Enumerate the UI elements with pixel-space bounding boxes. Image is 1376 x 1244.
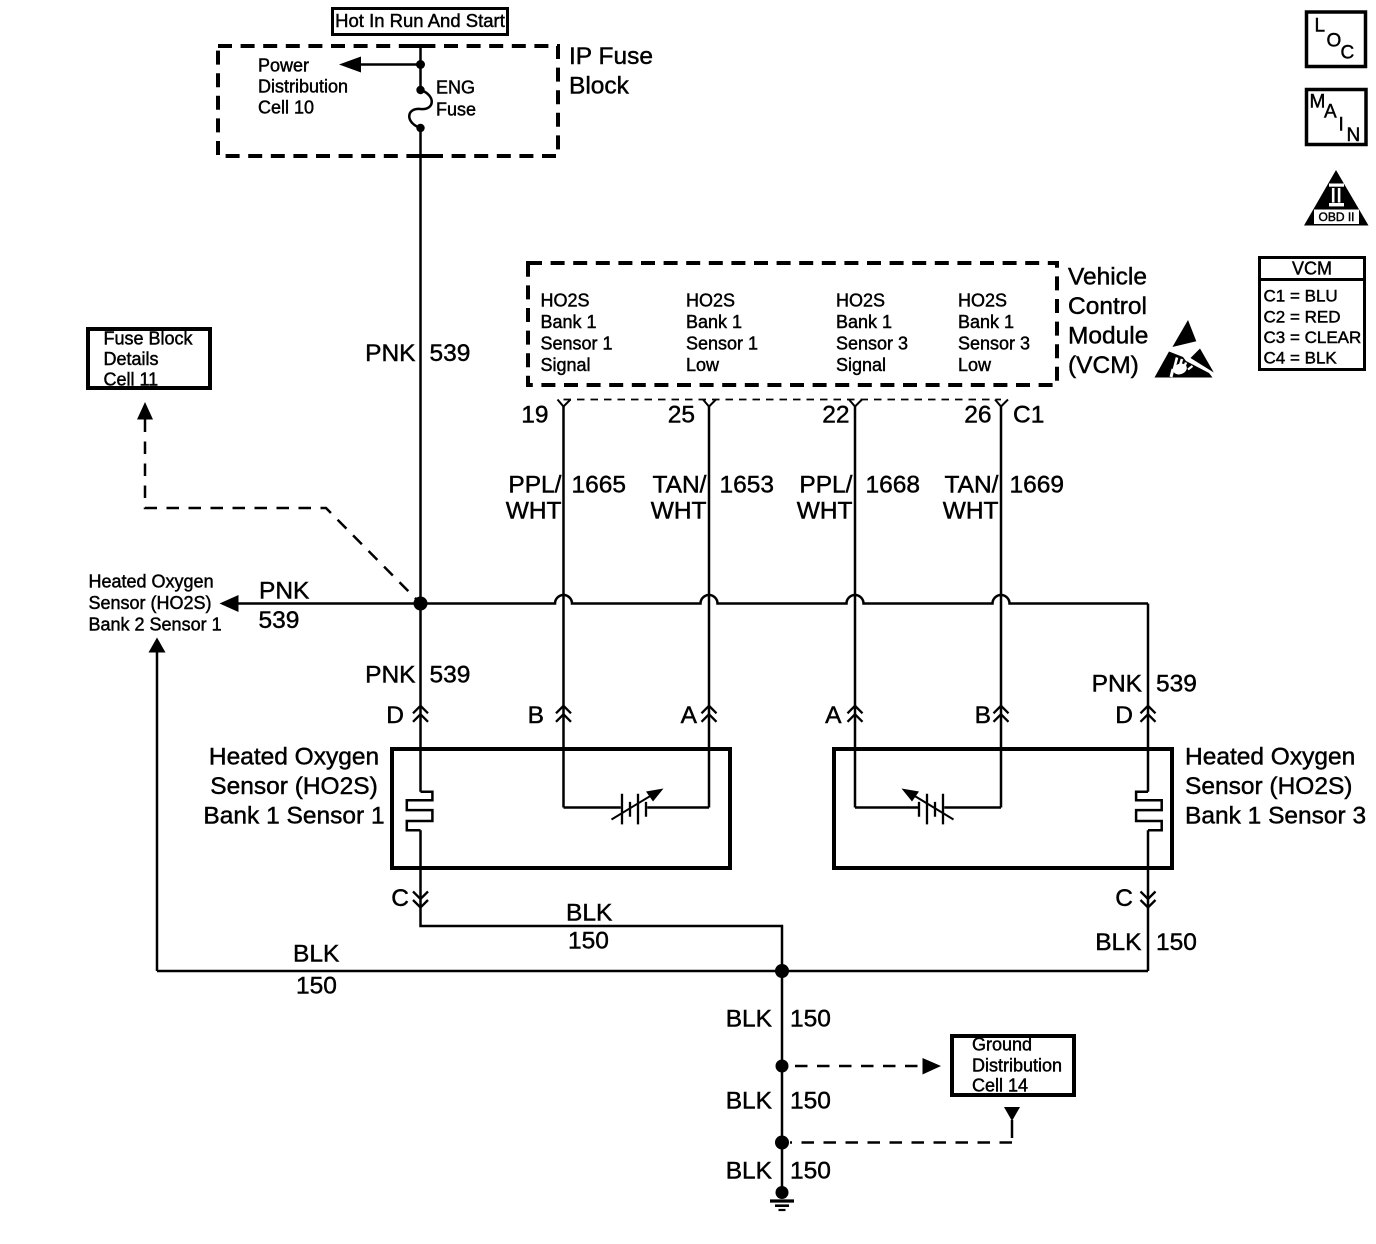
svg-text:Bank 1 Sensor 1: Bank 1 Sensor 1: [203, 803, 384, 830]
label BLK 150 center: [566, 900, 613, 955]
svg-text:ENG: ENG: [436, 78, 475, 98]
svg-text:Bank 1: Bank 1: [686, 312, 742, 332]
wire inside right sensor from pin B: [944, 806, 1001, 809]
node: main PNK junction: [414, 597, 428, 611]
connector chevrons pin D left: [413, 706, 428, 722]
Heated Oxygen Sensor (HO2S) Bank 2 Sensor 1 label: [89, 572, 222, 635]
label PNK 539 branch: [259, 578, 311, 635]
svg-text:PNK: PNK: [365, 340, 416, 367]
Hot In Run And Start label box: [333, 9, 508, 35]
svg-text:1653: 1653: [720, 472, 775, 499]
svg-text:1668: 1668: [866, 472, 921, 499]
wire PNK 539 to right sensor pin D: [1147, 604, 1150, 792]
connector chevrons pin C left: [413, 892, 428, 908]
ENG Fuse label: [436, 78, 476, 120]
svg-text:PPL/: PPL/: [799, 472, 852, 499]
svg-text:BLK: BLK: [726, 1088, 773, 1115]
svg-text:539: 539: [259, 607, 300, 634]
svg-text:Sensor 3: Sensor 3: [836, 334, 908, 354]
svg-text:Cell 10: Cell 10: [258, 98, 314, 118]
svg-text:Ground: Ground: [972, 1035, 1032, 1055]
svg-text:150: 150: [790, 1088, 831, 1115]
IP Fuse Block dashed box: [218, 46, 558, 156]
Vehicle Control Module (VCM) title: [1068, 264, 1148, 380]
svg-text:Bank 1: Bank 1: [958, 312, 1014, 332]
svg-text:B: B: [975, 702, 991, 729]
connector chevrons pin B right: [994, 706, 1009, 722]
label BLK 150 row 1: [726, 1006, 831, 1033]
wire inside right sensor from pin A: [855, 806, 918, 809]
svg-text:Bank 1: Bank 1: [541, 312, 597, 332]
connector chevrons pin D right: [1141, 706, 1156, 722]
svg-text:Block: Block: [569, 73, 630, 100]
ENG fuse: [409, 86, 432, 132]
VCM pin function labels: [541, 291, 1031, 376]
pin letters C: [391, 885, 1133, 912]
connector chevrons pin C right: [1141, 892, 1156, 908]
heater element right sensor: [1136, 792, 1162, 831]
wire BLK 150 down to ground: [781, 971, 784, 1193]
svg-text:HO2S: HO2S: [686, 291, 735, 311]
connector chevrons pin A left: [702, 706, 717, 722]
svg-text:HO2S: HO2S: [836, 291, 885, 311]
svg-text:Bank 2 Sensor 1: Bank 2 Sensor 1: [89, 615, 222, 635]
svg-text:Sensor (HO2S): Sensor (HO2S): [1185, 773, 1352, 800]
svg-text:Hot In Run And Start: Hot In Run And Start: [335, 10, 505, 31]
label BLK 150 row 2: [726, 1088, 831, 1115]
svg-text:150: 150: [568, 928, 609, 955]
svg-text:C1: C1: [1013, 402, 1044, 429]
svg-text:Sensor 1: Sensor 1: [541, 334, 613, 354]
dash tick at top border wire crossing: [411, 44, 430, 48]
svg-text:A: A: [681, 702, 698, 729]
svg-text:C1 = BLU: C1 = BLU: [1264, 287, 1338, 306]
svg-text:Sensor (HO2S): Sensor (HO2S): [210, 773, 377, 800]
node: ground distribution tap: [776, 1060, 789, 1073]
svg-text:B: B: [528, 702, 544, 729]
svg-text:Sensor 3: Sensor 3: [958, 334, 1030, 354]
Ground Distribution Cell 14 box: [952, 1035, 1074, 1096]
arrow to HO2S Bank 2 Sensor 1: [220, 595, 421, 612]
sensing element right (variable cell): [902, 789, 954, 825]
svg-text:Bank 1 Sensor 3: Bank 1 Sensor 3: [1185, 803, 1366, 830]
svg-text:OBD II: OBD II: [1318, 210, 1354, 224]
svg-text:TAN/: TAN/: [945, 472, 999, 499]
svg-text:539: 539: [1156, 671, 1197, 698]
node: fuse feed junction: [416, 60, 425, 69]
wire inside left sensor from pin A: [647, 806, 709, 809]
svg-text:WHT: WHT: [651, 498, 707, 525]
connector Y pin 25: [703, 400, 716, 407]
wire pin C left sensor down and across: [421, 830, 783, 971]
svg-text:IP Fuse: IP Fuse: [569, 43, 653, 70]
svg-text:A: A: [1324, 102, 1337, 123]
node: ground bus junction: [775, 964, 789, 978]
wire: hot feed into fuse: [419, 46, 422, 90]
svg-text:I: I: [1339, 115, 1344, 136]
Vehicle Control Module dashed box: [528, 263, 1057, 385]
svg-text:19: 19: [521, 402, 548, 429]
svg-text:Low: Low: [958, 355, 992, 375]
connector Y pin 22: [849, 400, 862, 407]
svg-text:A: A: [825, 702, 842, 729]
ESD sensitive symbol: [1155, 320, 1214, 378]
svg-text:1665: 1665: [572, 472, 627, 499]
ground symbol: [770, 1186, 794, 1210]
dashed reference path to Fuse Block Details: [137, 402, 421, 604]
svg-text:26: 26: [964, 402, 991, 429]
connector chevrons pin A right: [848, 706, 863, 722]
svg-text:Cell 11: Cell 11: [104, 369, 159, 389]
svg-text:Distribution: Distribution: [258, 77, 348, 97]
svg-text:L: L: [1315, 16, 1326, 37]
arrow to Power Distribution: [339, 57, 421, 73]
wire PPL/WHT 1665: [562, 407, 565, 808]
svg-text:BLK: BLK: [726, 1158, 773, 1185]
wire PNK 539 to left sensor pin D: [419, 604, 422, 792]
svg-text:Heated Oxygen: Heated Oxygen: [209, 744, 379, 771]
svg-text:D: D: [386, 702, 404, 729]
svg-text:HO2S: HO2S: [958, 291, 1007, 311]
svg-text:BLK: BLK: [566, 900, 613, 927]
dash tick at bottom border wire crossing: [411, 154, 430, 158]
HO2S Bank 1 Sensor 1 box: [392, 749, 730, 868]
svg-text:539: 539: [430, 662, 471, 689]
VCM connector color table: [1258, 258, 1366, 370]
dashed return from Ground Distribution: [790, 1107, 1020, 1143]
label PNK 539 at right pin D: [1092, 671, 1197, 698]
label BLK 150 left: [293, 941, 340, 1000]
svg-text:D: D: [1115, 702, 1133, 729]
svg-text:Heated Oxygen: Heated Oxygen: [1185, 744, 1355, 771]
svg-text:Cell 14: Cell 14: [972, 1075, 1028, 1095]
svg-text:Signal: Signal: [541, 355, 591, 375]
sensing element left (variable cell): [612, 789, 664, 825]
svg-text:(VCM): (VCM): [1068, 352, 1139, 379]
svg-text:BLK: BLK: [293, 941, 340, 968]
MAIN symbol box: [1307, 90, 1367, 147]
svg-text:Bank 1: Bank 1: [836, 312, 892, 332]
svg-text:Sensor 1: Sensor 1: [686, 334, 758, 354]
pin numbers: [521, 402, 1044, 429]
svg-text:TAN/: TAN/: [653, 472, 707, 499]
wire PNK 539 from fuse down to main junction: [419, 128, 422, 604]
wire BLK 150 main ground run: [157, 970, 1148, 973]
svg-text:150: 150: [1156, 929, 1197, 956]
label PNK 539 at left pin D: [365, 662, 470, 689]
wire: main PNK feed with hops over sensor wires: [421, 595, 1149, 604]
svg-text:150: 150: [790, 1158, 831, 1185]
connector chevrons pin B left: [556, 706, 571, 722]
node: ground distribution return tap: [775, 1136, 789, 1150]
wire color labels: [506, 472, 1064, 525]
svg-text:25: 25: [668, 402, 695, 429]
svg-text:1669: 1669: [1010, 472, 1065, 499]
svg-text:BLK: BLK: [1095, 929, 1142, 956]
svg-text:Fuse: Fuse: [436, 100, 476, 120]
svg-text:WHT: WHT: [506, 498, 562, 525]
wire PPL/WHT 1668: [854, 407, 857, 808]
wire pin C right sensor down: [1147, 830, 1150, 971]
svg-text:Details: Details: [104, 349, 159, 369]
svg-text:Signal: Signal: [836, 355, 886, 375]
svg-text:HO2S: HO2S: [541, 291, 590, 311]
svg-text:WHT: WHT: [797, 498, 853, 525]
svg-text:Control: Control: [1068, 293, 1147, 320]
wire TAN/WHT 1669: [1000, 407, 1003, 808]
label BLK 150 row 3: [726, 1158, 831, 1185]
svg-text:VCM: VCM: [1292, 259, 1332, 279]
svg-text:PNK: PNK: [365, 662, 416, 689]
svg-text:C3 = CLEAR: C3 = CLEAR: [1264, 328, 1362, 347]
svg-text:Low: Low: [686, 355, 720, 375]
Power Distribution Cell 10 label: [258, 56, 348, 118]
svg-text:C: C: [391, 885, 409, 912]
svg-text:Power: Power: [258, 56, 309, 76]
svg-text:539: 539: [430, 340, 471, 367]
wire TAN/WHT 1653: [708, 407, 711, 808]
OBD II symbol: [1304, 170, 1369, 226]
label PNK 539 upper: [365, 340, 470, 367]
svg-text:O: O: [1327, 31, 1342, 52]
svg-text:C2 = RED: C2 = RED: [1264, 307, 1341, 326]
svg-text:Distribution: Distribution: [972, 1056, 1062, 1076]
connector Y pin 19: [558, 400, 571, 407]
svg-text:N: N: [1347, 125, 1361, 146]
svg-text:Sensor (HO2S): Sensor (HO2S): [89, 593, 212, 613]
label BLK 150 right: [1095, 929, 1197, 956]
pin letters top row: [386, 702, 1133, 729]
svg-text:PNK: PNK: [1092, 671, 1143, 698]
svg-text:PNK: PNK: [259, 578, 310, 605]
svg-text:Fuse Block: Fuse Block: [104, 328, 194, 348]
svg-text:Heated Oxygen: Heated Oxygen: [89, 572, 214, 592]
svg-text:22: 22: [822, 402, 849, 429]
svg-text:M: M: [1310, 92, 1326, 113]
wire to HO2S Bank 2 Sensor 1: [149, 638, 166, 972]
connector Y pin 26: [995, 400, 1008, 407]
svg-text:Module: Module: [1068, 323, 1148, 350]
dashed reference to Ground Distribution: [795, 1058, 941, 1075]
svg-text:C: C: [1341, 43, 1355, 64]
connector C1 dashed face line: [564, 399, 1002, 401]
svg-text:WHT: WHT: [943, 498, 999, 525]
svg-text:150: 150: [296, 973, 337, 1000]
Fuse Block Details Cell 11 box: [88, 328, 210, 389]
svg-text:Vehicle: Vehicle: [1068, 264, 1147, 291]
svg-text:PPL/: PPL/: [508, 472, 561, 499]
svg-text:C4 = BLK: C4 = BLK: [1264, 349, 1338, 368]
heater element left sensor: [407, 792, 433, 831]
wire inside left sensor from pin B: [564, 806, 621, 809]
svg-text:BLK: BLK: [726, 1006, 773, 1033]
HO2S Bank 1 Sensor 3 box: [834, 749, 1172, 868]
Heated Oxygen Sensor (HO2S) Bank 1 Sensor 3 label: [1185, 744, 1366, 830]
svg-text:C: C: [1115, 885, 1133, 912]
LOC symbol box: [1307, 12, 1366, 67]
svg-text:150: 150: [790, 1006, 831, 1033]
Heated Oxygen Sensor (HO2S) Bank 1 Sensor 1 label: [203, 744, 384, 830]
